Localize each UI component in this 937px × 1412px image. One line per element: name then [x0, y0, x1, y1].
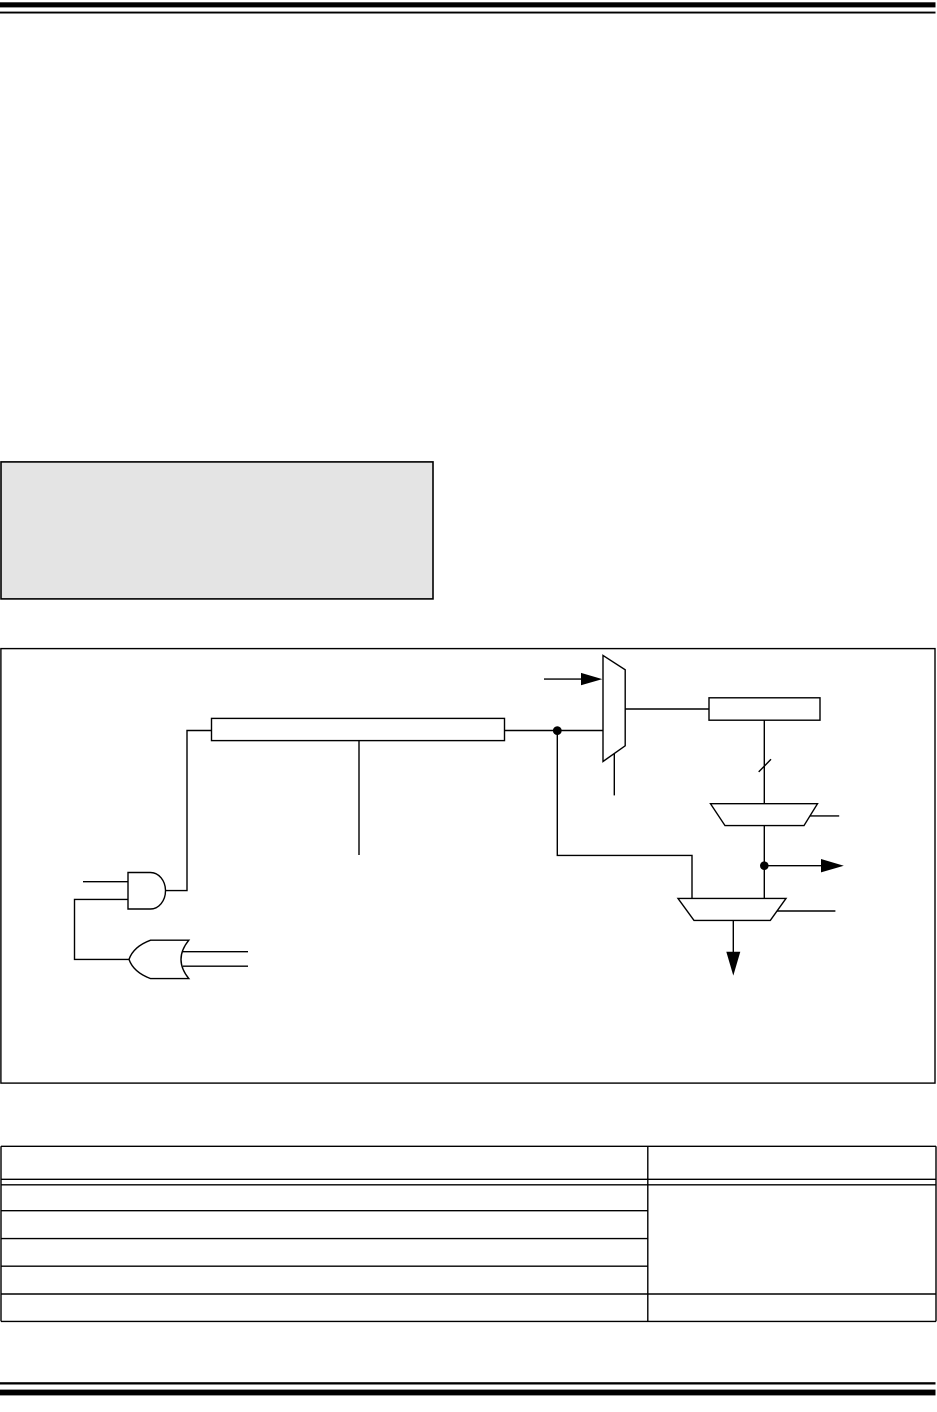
junction node B [760, 861, 769, 870]
figure frame [1, 649, 935, 1084]
AND gate [128, 873, 166, 910]
wire node A to synchronizer [557, 731, 692, 899]
wire register-right to mux [505, 730, 604, 732]
bus width slash [759, 759, 771, 772]
register (period) [709, 698, 820, 720]
mux M1 [603, 655, 625, 761]
clock input arrow into mux [544, 678, 582, 680]
bus wire to prescaler [763, 720, 765, 804]
synchronizer [678, 898, 786, 920]
OR input wire lower [183, 965, 248, 967]
AND top input wire [83, 881, 128, 883]
wire mux output [625, 708, 709, 710]
header rule thin [0, 12, 936, 14]
OR gate [129, 940, 189, 978]
note box [1, 462, 433, 599]
prescaler control stub [810, 815, 839, 817]
output arrow down [732, 920, 734, 952]
synchronizer control stub [777, 910, 835, 912]
register bottom stub wire [358, 741, 360, 856]
table [1, 1146, 936, 1321]
mux select stub [613, 754, 615, 796]
prescaler [711, 804, 818, 826]
footer rule thin [0, 1382, 936, 1384]
wire register-left to AND output [166, 731, 212, 891]
header rule thick [0, 2, 936, 7]
wire prescaler to synchronizer [763, 826, 765, 899]
output arrow right [768, 865, 822, 867]
OR input wire upper [183, 951, 248, 953]
register TMR0 [212, 718, 505, 740]
wire AND bottom input to OR output [75, 899, 130, 959]
junction node A [553, 726, 562, 735]
footer rule thick [0, 1390, 936, 1396]
